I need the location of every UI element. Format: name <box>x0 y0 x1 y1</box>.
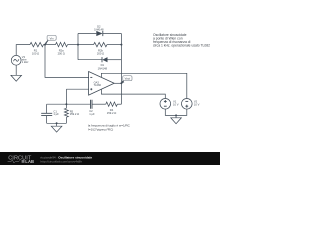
svg-text:10 V: 10 V <box>194 102 200 106</box>
svg-text:159.2 Ω: 159.2 Ω <box>107 111 116 115</box>
svg-text:1 kHz: 1 kHz <box>22 60 29 64</box>
svg-text:Vin: Vin <box>50 36 54 40</box>
svg-text:200 Ω: 200 Ω <box>58 52 65 56</box>
svg-text:200 Ω: 200 Ω <box>97 52 104 56</box>
svg-text:1N4148: 1N4148 <box>98 66 108 70</box>
svg-text:TL082: TL082 <box>94 83 102 87</box>
svg-text:f=1/(2*pigreco*RC): f=1/(2*pigreco*RC) <box>88 128 113 132</box>
svg-text:http://circuitlab.com/cmzv4s8h: http://circuitlab.com/cmzv4s8h <box>41 159 83 163</box>
svg-text:circa 1 kHz. operazionale usat: circa 1 kHz. operazionale usato TL082 <box>153 44 210 48</box>
svg-text:1N4148: 1N4148 <box>94 28 104 32</box>
svg-text:Vout: Vout <box>125 77 131 81</box>
svg-text:10 V: 10 V <box>173 102 179 106</box>
svg-text:LAB: LAB <box>25 159 34 164</box>
svg-text:1 µF: 1 µF <box>53 112 59 116</box>
svg-text:1 µF: 1 µF <box>89 112 95 116</box>
svg-text:100 Ω: 100 Ω <box>32 52 39 56</box>
svg-text:159.2 Ω: 159.2 Ω <box>70 112 79 116</box>
